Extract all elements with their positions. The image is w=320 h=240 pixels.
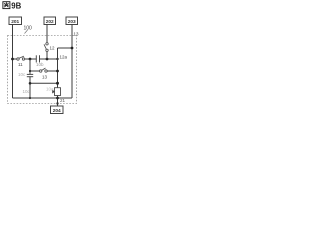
svg-text:203: 203 xyxy=(68,19,76,25)
main wire node A (y=59) xyxy=(13,58,18,60)
svg-text:10c: 10c xyxy=(18,72,26,77)
dashed device boundary 10 xyxy=(8,36,77,104)
wire below 10a xyxy=(57,96,59,107)
terminal box 204 xyxy=(51,106,64,114)
wire from switch 12 to main wire xyxy=(46,52,48,60)
svg-text:100: 100 xyxy=(24,26,33,32)
svg-text:202: 202 xyxy=(46,19,54,25)
wire xyxy=(40,58,58,60)
bottom wire xyxy=(13,97,73,99)
junction dot at 72,48 xyxy=(71,47,74,50)
svg-text:21: 21 xyxy=(60,98,66,103)
junction dot at 30,98 xyxy=(29,97,31,99)
junction dot at 57.5,71 xyxy=(56,70,59,73)
switch 13 (second) xyxy=(40,68,48,80)
wire xyxy=(25,58,36,60)
junction dot on boundary at 57.5,103.5 xyxy=(56,102,58,104)
svg-text:10a: 10a xyxy=(46,87,54,92)
wire from 201 down xyxy=(12,25,14,99)
terminal box 201 xyxy=(9,17,22,25)
junction dot at 30,83.3 xyxy=(29,82,32,85)
switch 12 (vertical) xyxy=(44,43,55,52)
junction dot at 30,71 xyxy=(29,70,31,72)
terminal box 202 xyxy=(44,17,56,25)
junction dot at 57.5,98 xyxy=(56,97,59,100)
capacitor 10b (series) xyxy=(36,55,44,67)
wire from 203 down xyxy=(71,25,73,99)
junction dot at 12.5,59 xyxy=(11,58,14,61)
junction dot at 30,59 xyxy=(29,58,32,61)
wire node B to 12a xyxy=(30,82,58,84)
wire from 202 down xyxy=(46,25,48,43)
element 10a (box with arrow) xyxy=(46,87,61,96)
wire xyxy=(47,70,57,72)
svg-text:10b: 10b xyxy=(36,62,44,67)
svg-text:9B: 9B xyxy=(11,1,21,10)
svg-text:201: 201 xyxy=(11,19,19,25)
terminal box 203 xyxy=(66,17,78,25)
capacitor 10c (shunt) xyxy=(18,72,33,77)
svg-text:10d: 10d xyxy=(23,89,31,94)
junction dot at 57.5,59 xyxy=(56,58,58,60)
wire top link to right wire xyxy=(58,47,73,49)
label 100 xyxy=(24,26,33,34)
svg-text:204: 204 xyxy=(53,108,61,114)
junction dot at 47,59 xyxy=(46,58,49,61)
wire below cap, corner to right xyxy=(29,77,31,98)
figure title 図9B (図 drawn as strokes) xyxy=(3,2,10,9)
wire y=71 xyxy=(30,70,40,72)
branch wire x=30 down xyxy=(29,59,31,74)
svg-text:12a: 12a xyxy=(60,55,68,60)
node 12a vertical wire xyxy=(57,48,59,88)
switch 11 xyxy=(17,56,25,67)
svg-text:13: 13 xyxy=(74,32,80,37)
junction dot at 57.5,82 xyxy=(56,82,59,85)
svg-text:12: 12 xyxy=(50,46,56,51)
svg-text:11: 11 xyxy=(18,62,23,67)
svg-text:13: 13 xyxy=(42,75,48,80)
